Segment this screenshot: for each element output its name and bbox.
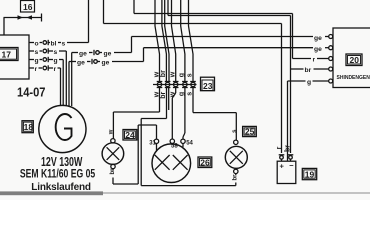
wire ge row2 riser from generator bbox=[68, 62, 70, 107]
svg-text:g: g bbox=[179, 73, 186, 77]
wire pin3 to headlamp 58 bbox=[175, 88, 177, 94]
wire row ge-ge upper bbox=[72, 50, 132, 58]
wire row o-bl-s (box17 row1) bbox=[29, 40, 89, 48]
svg-text:o: o bbox=[35, 40, 39, 47]
wire row r of regulator bbox=[293, 56, 329, 63]
svg-text:ge: ge bbox=[314, 35, 322, 42]
headlamp E26 body with two filaments bbox=[152, 144, 191, 183]
battery G2 bbox=[277, 161, 296, 183]
svg-text:br: br bbox=[160, 92, 167, 99]
box 18 label bbox=[22, 121, 33, 133]
wire row s-s (box17 row2) bbox=[29, 48, 66, 56]
wire row r-r (box17 row4) bbox=[29, 65, 61, 73]
svg-text:17: 17 bbox=[2, 50, 12, 60]
svg-text:26: 26 bbox=[200, 158, 210, 168]
svg-text:g: g bbox=[54, 57, 58, 64]
svg-text:s: s bbox=[54, 49, 58, 56]
box 24 label bbox=[123, 130, 137, 141]
wire pin1 bbox=[155, 0, 160, 82]
svg-text:+: + bbox=[280, 162, 285, 171]
box 16 label bbox=[21, 1, 35, 13]
svg-text:r: r bbox=[54, 66, 57, 73]
wire pin2 double bbox=[162, 0, 167, 82]
wire ge2 horizontal run to regulator bbox=[144, 47, 314, 49]
terminal ge1 of U20 bbox=[329, 35, 333, 39]
wire s down to generator bbox=[65, 51, 67, 106]
svg-text:s: s bbox=[187, 92, 194, 96]
wire lamp24 ground bbox=[110, 125, 138, 184]
svg-text:ge: ge bbox=[314, 46, 322, 53]
connector 23 wire labels above bbox=[154, 70, 194, 78]
svg-text:ge: ge bbox=[104, 50, 112, 57]
battery connector symbol left (r) bbox=[276, 146, 285, 161]
wire row br of regulator bbox=[291, 67, 329, 74]
svg-text:s: s bbox=[232, 129, 238, 133]
pin3 bbox=[173, 81, 179, 83]
svg-text:14-07: 14-07 bbox=[17, 86, 46, 100]
svg-text:g: g bbox=[35, 57, 39, 64]
svg-text:r: r bbox=[276, 146, 283, 149]
wire pin5 bbox=[189, 0, 194, 82]
connector 16 symbol bbox=[4, 14, 43, 22]
top wire A from x103.5 to battery plus bbox=[104, 0, 282, 153]
pin5 bbox=[190, 81, 196, 83]
box 23 label bbox=[201, 77, 215, 91]
svg-text:25: 25 bbox=[245, 127, 255, 137]
svg-text:r: r bbox=[313, 56, 316, 63]
svg-text:br: br bbox=[305, 67, 312, 74]
wire ge2 riser to top run bbox=[143, 48, 145, 62]
top wire from x134 to regulator r bbox=[134, 0, 293, 59]
terminal ge2 of U20 bbox=[329, 46, 333, 50]
box 19 label bbox=[302, 168, 316, 179]
svg-text:SHINDENGEN: SHINDENGEN bbox=[337, 75, 370, 81]
connector 23 wire labels below bbox=[154, 91, 194, 99]
wire connector16 to box17 bbox=[3, 18, 5, 36]
lamp E24 (turn indicator) bbox=[102, 139, 124, 169]
wire pin4 to headlamp 54 bbox=[184, 88, 186, 134]
terminal g of U20 bbox=[329, 79, 333, 83]
svg-text:23: 23 bbox=[203, 81, 213, 91]
wire pin1 to lamp 24 bbox=[109, 112, 160, 139]
regulator U20 SHINDENGEN box bbox=[333, 28, 370, 88]
svg-text:16: 16 bbox=[23, 2, 33, 12]
wire ge1 horizontal run to regulator bbox=[132, 36, 314, 38]
wire r down to generator bbox=[60, 68, 62, 106]
svg-text:19: 19 bbox=[305, 170, 315, 180]
wire g down to generator bbox=[62, 60, 64, 107]
svg-text:s: s bbox=[35, 49, 39, 56]
wire br down to battery minus bbox=[290, 69, 292, 153]
wire headlamp terminal 31 ground hook bbox=[138, 125, 156, 139]
box 25 label bbox=[243, 126, 257, 136]
top wire from x171.8 to regulator br bbox=[168, 0, 291, 69]
wire lamp25 ground bbox=[233, 174, 239, 186]
svg-text:31: 31 bbox=[149, 140, 156, 146]
svg-text:br: br bbox=[160, 70, 167, 77]
svg-text:br: br bbox=[285, 145, 292, 152]
wire pin5 to lamp 25 bbox=[193, 104, 238, 140]
svg-text:ge: ge bbox=[79, 50, 87, 57]
svg-text:r: r bbox=[35, 66, 38, 73]
wire row g of regulator bbox=[288, 79, 329, 86]
svg-text:w: w bbox=[169, 71, 176, 78]
box 26 label bbox=[198, 157, 212, 168]
wire riser bl-s up bbox=[88, 0, 90, 43]
svg-text:s: s bbox=[187, 73, 194, 77]
headlamp E26 terminals bbox=[149, 139, 193, 151]
svg-text:bl: bl bbox=[51, 40, 57, 47]
terminal r of U20 bbox=[329, 57, 333, 61]
bottom frame line dark bbox=[0, 191, 103, 195]
wire ge1 riser to top run bbox=[131, 37, 133, 53]
svg-text:−: − bbox=[289, 161, 294, 170]
svg-text:s: s bbox=[62, 40, 66, 47]
wire row g-g (box17 row3) bbox=[29, 57, 63, 65]
svg-text:18: 18 bbox=[24, 122, 34, 132]
svg-text:ge: ge bbox=[77, 59, 85, 66]
pin2 bbox=[165, 81, 171, 83]
terminal br of U20 bbox=[329, 67, 333, 71]
svg-text:w: w bbox=[109, 129, 115, 135]
battery connector symbol right (br) bbox=[285, 145, 294, 161]
svg-text:24: 24 bbox=[125, 130, 135, 140]
lamp E25 (turn indicator) bbox=[225, 140, 247, 173]
bottom frame line faint bbox=[103, 192, 370, 194]
wire pin3 bbox=[172, 0, 176, 82]
connector 23 pin row bbox=[153, 82, 197, 119]
wire ge row1 riser from generator bbox=[71, 53, 73, 107]
pin1 bbox=[157, 81, 163, 83]
svg-text:54: 54 bbox=[186, 140, 193, 146]
svg-text:Linkslaufend: Linkslaufend bbox=[31, 182, 91, 193]
generator G1 circle bbox=[39, 105, 86, 152]
wire pin2 ground run bbox=[141, 119, 236, 186]
svg-text:ge: ge bbox=[102, 59, 110, 66]
wire row ge-ge lower bbox=[69, 59, 144, 67]
box 17 (ignition switch) bbox=[0, 35, 29, 79]
wire g down to battery minus bbox=[287, 81, 289, 161]
svg-text:g: g bbox=[307, 79, 311, 86]
svg-text:SEM K11/60 EG 05: SEM K11/60 EG 05 bbox=[20, 167, 95, 181]
svg-text:20: 20 bbox=[350, 55, 360, 65]
pin4 bbox=[182, 81, 188, 83]
wire pin4 bbox=[181, 0, 185, 82]
